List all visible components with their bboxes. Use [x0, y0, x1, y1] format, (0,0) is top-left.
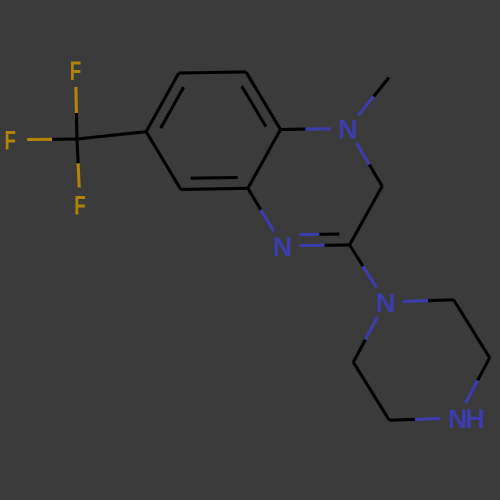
- bond N1-C2: [356, 143, 369, 165]
- svg-text:N: N: [376, 288, 396, 318]
- bond C-F (bottom): [77, 139, 78, 163]
- piperazine bond C2p-C3p: [454, 300, 490, 358]
- piperazine bond C5p-C6p: [353, 362, 389, 420]
- piperazine bond NH-C5p: [415, 417, 441, 421]
- bond C2-C3: [350, 186, 383, 245]
- bond C8-C8a (aromatic): [246, 72, 281, 130]
- svg-text:H: H: [465, 404, 485, 434]
- bond C8a-N1: [281, 128, 306, 131]
- svg-text:F: F: [4, 126, 16, 156]
- bond C6-C7 (aromatic): [146, 73, 179, 132]
- piperazine bond C6p-N: [353, 340, 365, 363]
- piperazine bond C3p-NH: [478, 358, 490, 381]
- svg-text:N: N: [273, 232, 293, 262]
- double bond C3=N4: [325, 243, 350, 247]
- fusion bond C8a-C4a: [248, 130, 281, 189]
- bond C5-C6: [146, 132, 181, 190]
- svg-text:F: F: [74, 190, 86, 220]
- bond N4-C4a: [261, 210, 274, 232]
- bond N1-CH3: [358, 96, 373, 115]
- piperazine bond N-C2p: [403, 299, 429, 303]
- bond C6-CF3: [77, 132, 146, 139]
- bond C4a-C5 (aromatic): [181, 188, 248, 189]
- bond C7-C8: [179, 72, 246, 73]
- bond C-F (top): [75, 113, 79, 139]
- bond C3-piperazine N: [350, 245, 363, 266]
- svg-text:N: N: [338, 114, 358, 144]
- bond C-F (left): [52, 137, 77, 140]
- svg-text:F: F: [70, 56, 82, 86]
